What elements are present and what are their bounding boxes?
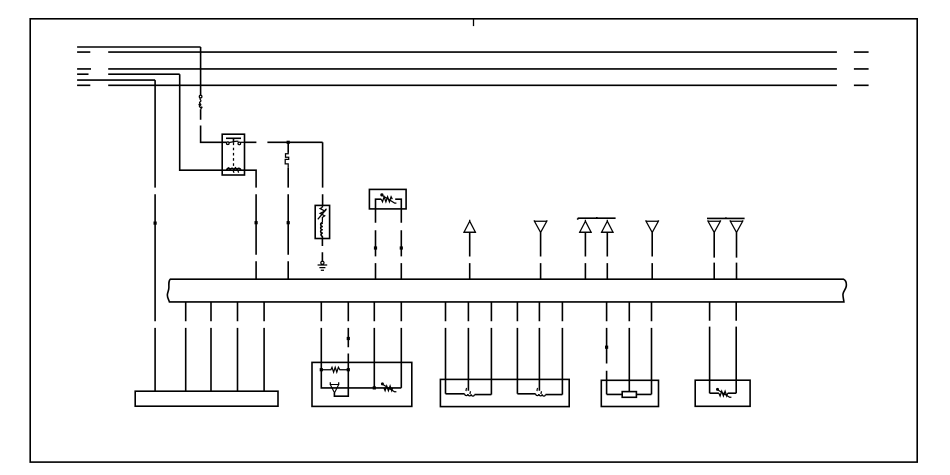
wire bus to variable resistor unit pin 2 xyxy=(735,302,737,393)
connector triangle down E xyxy=(646,220,658,232)
wire bus to resistor unit pin 2 xyxy=(628,302,630,392)
wire triangle A to bus xyxy=(469,232,471,279)
wire bus to coils pin 4 xyxy=(516,302,518,394)
wire bus to unit2 pin 3 xyxy=(373,302,375,388)
wire fuse to bus xyxy=(287,168,289,279)
wire power bus row 2 xyxy=(77,51,869,53)
wire bus to ECU pin 3 xyxy=(210,302,212,391)
junction dot sensor pin1 xyxy=(374,246,377,249)
wire triangle E to bus xyxy=(651,232,653,279)
fuse F1 xyxy=(285,153,289,168)
wire relay contact output xyxy=(245,141,323,143)
wire power bus row 3 xyxy=(77,68,869,70)
wire unit to ground xyxy=(321,239,323,262)
resistor-coil unit R2/L1 xyxy=(315,205,329,238)
junction dot sensor pin2 xyxy=(400,246,403,249)
junction dot resistor unit pin1 xyxy=(605,346,608,349)
wire row5 long drop to ECU xyxy=(154,80,156,391)
control unit U2 with resistor and diode xyxy=(312,362,412,406)
connector triangle up D xyxy=(601,220,614,233)
junction node fuse tap xyxy=(287,141,290,144)
link bar over connectors C D xyxy=(578,217,616,220)
wire bus to unit2 pin 1 xyxy=(320,302,322,370)
wire row4 to relay coil xyxy=(180,74,223,170)
solenoid pair unit xyxy=(440,379,569,406)
wire bus to ECU pin 2 xyxy=(185,302,187,391)
circuit breaker xyxy=(198,95,202,109)
ground xyxy=(318,261,328,270)
relay K1 xyxy=(222,134,244,175)
wire bus to coils pin 3 xyxy=(490,302,492,395)
wire triangle D to bus xyxy=(606,232,608,279)
wire bus to coils pin 2 xyxy=(467,302,469,391)
wire bus to resistor unit pin 3 xyxy=(651,302,653,395)
junction dot long wire xyxy=(154,222,157,225)
ECU connector block xyxy=(135,391,278,406)
wire bus to ECU pin 4 xyxy=(237,302,239,391)
connector triangle up C xyxy=(579,220,592,233)
wire bus to coils pin 6 xyxy=(561,302,563,395)
junction dot unit2 pin2 xyxy=(347,337,350,340)
wire triangle G to bus xyxy=(736,232,738,279)
link bar over connectors F G xyxy=(707,217,745,218)
wire bus to coils pin 5 xyxy=(538,302,540,391)
wire triangle F to bus xyxy=(713,232,715,279)
wire power bus row 4 xyxy=(77,73,180,75)
connector triangle down G xyxy=(730,220,742,232)
sensor with variable resistor B1 xyxy=(369,189,406,209)
wire triangle B to bus xyxy=(540,232,542,279)
wire contact line down to resistor-coil unit xyxy=(322,142,324,205)
wire bus to ECU pin 5 xyxy=(263,302,265,391)
wire triangle C to bus xyxy=(584,232,586,279)
wire feed to circuit breaker xyxy=(200,47,202,95)
wire power bus row 5 xyxy=(77,79,155,81)
variable resistor unit B2 xyxy=(695,380,750,406)
wire sensor pin 1 to bus xyxy=(375,209,377,279)
junction dot fuse wire xyxy=(287,221,290,224)
wire power bus row 1 xyxy=(77,46,201,48)
wire breaker to relay contact xyxy=(201,109,227,142)
wire power bus row 6 xyxy=(77,84,869,86)
wire sensor pin 2 to bus xyxy=(400,209,402,279)
wire junction to fuse xyxy=(287,142,289,153)
connector triangle down F xyxy=(708,220,720,232)
wire bus to unit2 pin 2 xyxy=(347,302,349,370)
wire relay coil output down to bus xyxy=(245,170,257,279)
wiring harness bus xyxy=(167,279,846,302)
wire bus to coils pin 1 xyxy=(445,302,447,394)
wire bus to variable resistor unit pin 1 xyxy=(709,302,711,393)
connector triangle up A xyxy=(463,220,476,233)
resistor unit R3 xyxy=(601,380,658,406)
wire bus to unit2 pin 4 xyxy=(400,302,402,388)
wire bus to resistor unit pin 1 xyxy=(606,302,608,395)
junction dot coil wire xyxy=(255,221,258,224)
connector triangle down B xyxy=(534,220,546,232)
